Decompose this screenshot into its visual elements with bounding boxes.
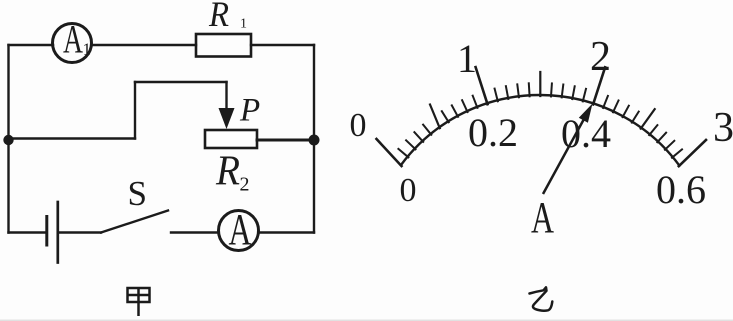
svg-text:A: A (531, 193, 554, 242)
wire: middle branch top horizontal (135, 81, 227, 83)
wire: top, left segment to A1 (9, 44, 54, 46)
svg-text:2: 2 (240, 174, 250, 196)
wire: right vertical (313, 45, 315, 233)
meter major ticks 0,1,2,3 (377, 67, 707, 166)
rheostat R2 (205, 130, 257, 148)
battery positive plate (long) (56, 202, 59, 263)
resistor R1 (196, 34, 251, 57)
ammeter A (219, 205, 259, 254)
svg-text:P: P (239, 93, 260, 129)
svg-text:A: A (229, 205, 252, 254)
svg-text:A: A (63, 17, 83, 62)
wire: top, A1 to R1 (92, 44, 197, 46)
svg-text:S: S (128, 174, 148, 213)
label R2 (215, 149, 249, 196)
meter scale arc (401, 95, 680, 166)
wire: battery to switch pivot (59, 231, 101, 233)
potentiometer wiper arrow P (219, 108, 235, 129)
battery negative plate (short) (45, 217, 48, 246)
wire: R2 to right junction (257, 139, 314, 142)
label jia (circuit diagram caption) (128, 288, 150, 316)
svg-text:3: 3 (713, 105, 733, 151)
svg-text:0.6: 0.6 (656, 167, 706, 212)
faint scan line at bottom edge (0, 319, 733, 321)
wire: wiper arrow stem (225, 82, 227, 112)
svg-text:1: 1 (457, 36, 477, 81)
wire: left vertical (7, 45, 9, 233)
svg-text:R: R (208, 0, 229, 34)
meter minor ticks (398, 83, 682, 157)
meter medium ticks 0.5,1.5,2.5 (430, 72, 655, 129)
svg-text:0.2: 0.2 (468, 110, 518, 155)
wire: switch contact to ammeter A (171, 231, 219, 233)
wire: ammeter A to bottom right corner (259, 231, 315, 233)
label R1 (208, 0, 247, 34)
label yi (meter caption) (530, 287, 553, 310)
wire: bottom, left corner to battery (9, 231, 46, 233)
svg-text:0: 0 (400, 172, 417, 209)
node: left junction dot (3, 135, 13, 145)
svg-text:0: 0 (350, 107, 367, 144)
wire: middle branch horizontal from left junction (9, 137, 136, 139)
svg-text:R: R (215, 149, 240, 195)
switch S lever (101, 211, 168, 233)
node: right junction dot (309, 135, 320, 146)
svg-text:2: 2 (590, 34, 611, 80)
svg-text:1: 1 (83, 40, 92, 59)
ammeter A1 (53, 17, 92, 63)
wire: top, R1 to right corner (251, 44, 314, 46)
wire: middle branch vertical step up (134, 82, 136, 139)
meter needle (543, 104, 593, 195)
svg-text:1: 1 (240, 17, 247, 32)
